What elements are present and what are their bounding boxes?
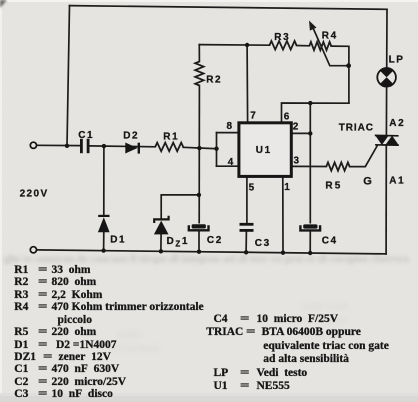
wire: top terminal to C1 <box>37 144 81 146</box>
IC U1 box <box>239 123 291 177</box>
capacitor C3 <box>240 224 254 230</box>
junction: pin 7 riser to R3 wire <box>245 43 249 47</box>
wire: DZ1 to bottom rail <box>160 233 162 250</box>
resistor R3 <box>270 41 297 50</box>
wire: C2 to bottom rail <box>198 231 200 252</box>
junction: DZ1 to bottom rail <box>159 249 163 253</box>
wire: LP top lead <box>386 9 388 68</box>
junction: C2 to bottom rail <box>197 250 201 254</box>
wire: pin 4 stub <box>217 165 238 167</box>
trimmer R4 <box>309 42 331 50</box>
wire: R3 to R4 <box>297 45 310 47</box>
diode D2 <box>125 143 139 154</box>
wire: pin 3 to R5 <box>293 165 327 167</box>
junction: R4 wiper node <box>346 63 351 68</box>
junction: DZ1 top link <box>197 193 201 197</box>
wire: horizontal to pin 6 riser <box>282 103 349 122</box>
electrolytic capacitor C4 <box>300 224 320 230</box>
lamp LP <box>377 68 396 87</box>
scanner corner mark <box>0 0 7 8</box>
junction: C4 to bottom rail <box>308 251 312 255</box>
wire: D1 to bottom rail <box>103 232 105 250</box>
triac <box>375 135 399 145</box>
junction: C3 to bottom rail <box>244 250 248 254</box>
wire: pins 8-4 vertical link <box>216 133 218 167</box>
wire: R4 wiper link <box>312 25 349 66</box>
wire: C3 to bottom rail <box>245 232 247 253</box>
wire: triac A1 to rail corner <box>385 145 387 254</box>
terminal top <box>30 142 36 148</box>
resistor R2 <box>195 62 203 86</box>
resistor R5 <box>326 162 349 170</box>
terminal bottom <box>30 247 36 253</box>
wire: LP to triac A2 <box>385 87 387 136</box>
wire: DZ1 top link <box>161 195 199 219</box>
wire: C4 to bottom rail <box>309 231 311 253</box>
junction: D1 to bottom rail <box>101 248 105 252</box>
junction: pins 8-4 stub <box>214 147 218 151</box>
wire: pin 7 riser <box>246 45 249 122</box>
diode D1 <box>98 216 110 232</box>
junction: left riser to mains wire <box>65 144 69 148</box>
trimmer R4 wiper arrowhead <box>309 21 317 31</box>
wire: R2/R3 top branch <box>199 44 269 47</box>
wire: R4 right end down to corner <box>331 46 349 103</box>
wire: R2 to main rail and C2 <box>198 86 200 223</box>
resistor R1 <box>155 143 183 152</box>
wire: bottom rail <box>37 250 387 254</box>
wire: R5 to triac gate <box>350 146 378 167</box>
junction: pin 6 line to C4 branch <box>308 101 312 105</box>
junction: R1/R2 node <box>197 146 201 150</box>
wire: pin2/C4 vertical <box>309 103 311 223</box>
wire: D1 branch <box>103 146 105 215</box>
junction: pin 2 stub to C4 branch <box>308 131 312 135</box>
zener DZ1 <box>154 216 169 235</box>
wire: top rail <box>70 6 388 10</box>
wire: pin 5 drop to C3 <box>246 178 248 223</box>
wire: R1 to U1 pins 8/4 stub <box>183 147 216 148</box>
wire: C1 to D2 to R1 <box>89 145 155 148</box>
wire: pin 2 stub <box>293 132 311 134</box>
capacitor C1 <box>81 139 88 153</box>
faint ghost text (page bleed) <box>110 302 348 355</box>
wire: pin 8 stub <box>217 132 238 134</box>
wire: pin 1 drop to rail <box>282 178 284 253</box>
wire: left vertical drop from top rail <box>67 6 70 146</box>
electrolytic capacitor C2 <box>189 224 209 230</box>
wire: R2 branch vertical upper <box>198 45 200 62</box>
junction: pin 1 to bottom rail <box>281 251 285 255</box>
bleed-through text band <box>4 253 409 265</box>
junction: C1/D1 node <box>102 144 106 148</box>
